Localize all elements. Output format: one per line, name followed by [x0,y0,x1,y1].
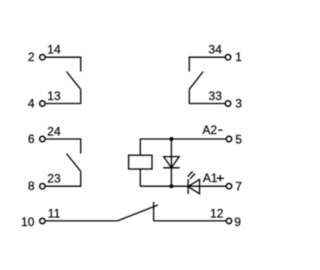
LED V2 arrowhead 1 [191,171,194,174]
contact K1a wire from pin 2 [46,57,81,71]
svg-text:24: 24 [47,125,61,139]
svg-text:5: 5 [235,132,242,146]
LED V2 emission arrow 2 [190,175,194,179]
svg-text:14: 14 [47,43,61,57]
pin 1 terminal circle [225,55,230,60]
svg-text:8: 8 [28,179,35,193]
svg-text:7: 7 [235,179,242,193]
svg-text:23: 23 [47,172,61,186]
diode V1 triangle [164,157,180,168]
svg-text:11: 11 [48,206,61,220]
svg-text:A1: A1 [203,171,218,185]
contact K2a wire from pin 6 [46,139,81,154]
pin 9 terminal circle [226,218,231,223]
node A1 junction dot [169,184,173,188]
contact K2a blade [66,154,80,172]
LED V2 triangle [188,179,199,193]
svg-text:1: 1 [235,50,242,64]
contact K1a blade [66,72,80,90]
diode V1 cathode bar [163,167,179,169]
svg-text:12: 12 [210,206,224,220]
pin 8 terminal circle [40,184,45,189]
wire A1+ bottom rail [140,185,226,187]
pin 7 terminal circle [226,184,231,189]
svg-text:3: 3 [235,97,242,111]
wire A2- to pin 5 [140,138,226,140]
contact K1b blade [189,72,203,90]
svg-text:9: 9 [234,215,241,229]
pin 2 terminal circle [40,55,45,60]
LED V2 cathode bar [187,179,189,194]
contact K2a wire to pin 8 [46,171,81,186]
pin 6 terminal circle [40,136,45,141]
pin 4 terminal circle [40,101,45,106]
contact K3 blade [117,205,157,221]
svg-text:4: 4 [28,97,35,111]
svg-text:6: 6 [28,132,35,146]
contact K3 fixed contact [153,202,155,221]
svg-text:2: 2 [28,50,35,64]
pin 3 terminal circle [225,101,230,106]
node A2 junction dot [169,137,173,141]
svg-text:A2: A2 [202,123,217,137]
LED V2 arrowhead 2 [193,173,196,176]
contact K3 wire from pin 10 [46,220,118,222]
svg-text:34: 34 [209,43,223,57]
contact K1b wire from pin 1 [189,57,224,71]
svg-text:10: 10 [21,215,35,229]
LED V2 emission arrow 1 [188,173,192,177]
pin 10 terminal circle [40,218,45,223]
pin 5 terminal circle [226,136,231,141]
svg-text:33: 33 [209,89,223,103]
svg-text:13: 13 [47,89,61,103]
relay coil K1 [129,155,152,169]
contact K3 wire to pin 9 [154,220,226,222]
wire coil branch [139,139,141,186]
contact K1a wire to pin 4 [46,89,81,103]
contact K1b wire to pin 3 [189,89,224,103]
diode V1 wire [170,139,172,186]
